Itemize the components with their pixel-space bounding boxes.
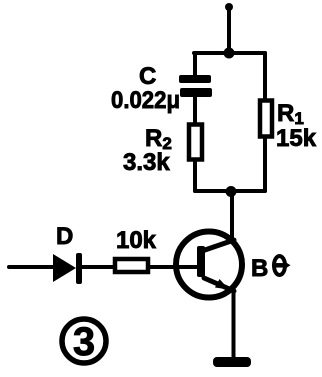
svg-text:B: B [251, 255, 268, 282]
svg-text:3: 3 [73, 320, 95, 364]
svg-text:15k: 15k [276, 125, 317, 152]
svg-text:D: D [56, 223, 73, 250]
svg-text:0.022μ: 0.022μ [111, 87, 180, 114]
svg-text:3.3k: 3.3k [123, 149, 170, 176]
svg-text:C: C [139, 63, 156, 90]
svg-text:10k: 10k [116, 227, 157, 254]
